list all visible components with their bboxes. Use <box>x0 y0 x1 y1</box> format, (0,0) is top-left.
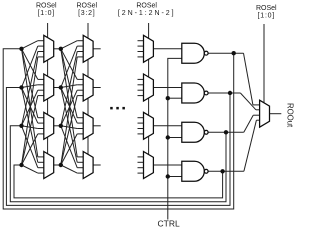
op-amp-style output mux U13 <box>260 100 270 127</box>
wire G4 output to output-mux input 4 <box>208 120 260 171</box>
wire U9 output to G1 input <box>153 48 181 50</box>
wire ROSel[1:0] select line col 1 <box>47 23 49 165</box>
mux U6 (column 2 row 2) <box>83 74 93 101</box>
wire input stubs of mux U1 <box>38 41 44 57</box>
ellipsis (repeated stages) <box>110 107 125 110</box>
wire feedback loop from G4 output to row 4 node <box>14 165 223 198</box>
svg-text:[1:0]: [1:0] <box>258 13 275 20</box>
wire fan row 2 node to column-1 mux inputs <box>22 46 38 162</box>
svg-text:CTRL: CTRL <box>157 219 179 229</box>
wire input stubs of mux U11 <box>138 118 144 134</box>
wire input stubs of mux U9 <box>138 41 144 57</box>
wire fan row 3 node to column-1 mux inputs <box>22 52 38 168</box>
node A1 (row 1 feedback) <box>19 47 23 51</box>
wire U11 output to G3 input <box>153 125 181 127</box>
wire U4 output to node B4 <box>54 164 61 166</box>
mux U1 (column 1 row 1) <box>44 35 54 62</box>
wire CTRL branch to G3 input <box>168 137 182 139</box>
NAND gate G4 <box>182 161 208 181</box>
wire CTRL branch to G2 input <box>168 97 182 99</box>
wire fan row 4 node to column-1 mux inputs <box>22 57 38 173</box>
mux U3 (column 1 row 3) <box>44 112 54 139</box>
wire fan node B4 to column-2 mux inputs <box>61 57 77 173</box>
wire feedback loop from G2 output to row 2 node <box>6 88 230 206</box>
NAND gate G1 <box>182 43 208 63</box>
label ROOut <box>286 103 295 128</box>
wire feedback loop from G3 output to row 3 node <box>10 126 226 202</box>
wire input stubs of mux U7 <box>77 118 83 134</box>
wire U12 output to G4 input <box>153 164 181 166</box>
node CTRL junction at G2 <box>166 96 170 100</box>
label ROSel [2N-1:2N-2] column 3 <box>118 3 176 18</box>
wire input stubs of mux U2 <box>38 79 44 95</box>
mux U10 (column 3 row 2) <box>144 74 154 101</box>
mux U8 (column 2 row 4) <box>83 152 93 179</box>
wire G3 output to output-mux input 3 <box>208 115 260 132</box>
node C4 (G4 output) <box>220 169 224 173</box>
wire fan row 1 node to column-1 mux inputs <box>22 41 38 157</box>
mux U7 (column 2 row 3) <box>83 112 93 139</box>
label ROSel [1:0] output mux <box>256 5 277 20</box>
NAND gate G2 <box>182 83 208 103</box>
wire U2 output to node B2 <box>54 87 61 89</box>
node CTRL junction at G4 <box>166 174 170 178</box>
wire input stubs of mux U4 <box>38 157 44 173</box>
mux U9 (column 3 row 1) <box>144 35 154 62</box>
mux U2 (column 1 row 2) <box>44 74 54 101</box>
wire CTRL branch to G4 input <box>168 176 182 178</box>
node C2 (G2 output) <box>228 91 232 95</box>
wire input stubs of mux U6 <box>77 79 83 95</box>
node A3 (row 3 feedback) <box>19 124 23 128</box>
wire ROOut output <box>270 113 282 115</box>
wire G1 output to output-mux input 1 <box>208 53 260 105</box>
mux U5 (column 2 row 1) <box>83 35 93 62</box>
wire CTRL vertical with branch to G1 input <box>168 58 182 219</box>
node CTRL junction at G3 <box>166 135 170 139</box>
node B2 (stage-1 output) <box>59 85 63 89</box>
NAND gate G3 <box>182 122 208 142</box>
wire input stubs of mux U10 <box>138 79 144 95</box>
svg-text:[1:0]: [1:0] <box>38 10 55 17</box>
svg-text:[2N-1:2N-2]: [2N-1:2N-2] <box>118 10 176 17</box>
node A4 (row 4 feedback) <box>19 163 23 167</box>
node C3 (G3 output) <box>224 130 228 134</box>
wire ROSel[3:2] select line col 2 <box>87 23 89 165</box>
svg-text:[3:2]: [3:2] <box>78 10 95 17</box>
svg-text:ROOut: ROOut <box>286 103 295 128</box>
wire fan node B1 to column-2 mux inputs <box>61 41 77 157</box>
mux U11 (column 3 row 3) <box>144 112 154 139</box>
wire U5 output stub <box>93 48 101 50</box>
wire U8 output stub <box>93 164 101 166</box>
node A2 (row 2 feedback) <box>19 85 23 89</box>
svg-text:ROSel: ROSel <box>36 3 57 10</box>
label CTRL <box>157 219 179 229</box>
wire U7 output stub <box>93 125 101 127</box>
wire input stubs of mux U12 <box>138 157 144 173</box>
node B4 (stage-1 output) <box>59 163 63 167</box>
wire input stubs of mux U5 <box>77 41 83 57</box>
node C1 (G1 output) <box>232 51 236 55</box>
svg-text:ROSel: ROSel <box>256 5 277 12</box>
wire G2 output to output-mux input 2 <box>208 93 260 110</box>
label ROSel [3:2] column 2 <box>76 3 97 18</box>
mux U4 (column 1 row 4) <box>44 152 54 179</box>
wire ROSel[2N-1:2N-2] select line col 3 <box>148 23 150 165</box>
mux U12 (column 3 row 4) <box>144 152 154 179</box>
wire input stubs of mux U3 <box>38 118 44 134</box>
wire U1 output to node B1 <box>54 48 61 50</box>
wire input stubs of mux U8 <box>77 157 83 173</box>
node B3 (stage-1 output) <box>59 124 63 128</box>
node B1 (stage-1 output) <box>59 47 63 51</box>
svg-text:ROSel: ROSel <box>136 3 157 10</box>
wire U10 output to G2 input <box>153 87 181 89</box>
wire fan node B3 to column-2 mux inputs <box>61 52 77 168</box>
wire U3 output to node B3 <box>54 125 61 127</box>
svg-text:ROSel: ROSel <box>76 3 97 10</box>
wire feedback loop from G1 output to row 1 node <box>3 49 234 209</box>
wire U6 output stub <box>93 87 101 89</box>
label ROSel [1:0] column 1 <box>36 3 57 18</box>
wire fan node B2 to column-2 mux inputs <box>61 46 77 162</box>
wire ROSel[1:0] select line output mux <box>263 24 265 114</box>
